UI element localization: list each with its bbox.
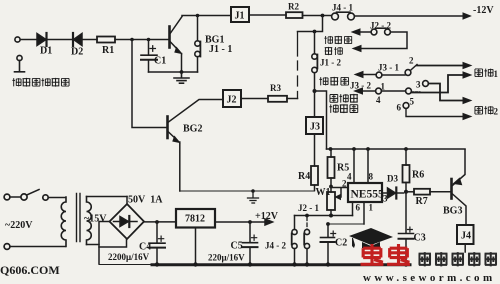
transistor BG3 bbox=[452, 150, 467, 226]
wire bbox=[82, 39, 97, 41]
svg-text:6: 6 bbox=[397, 103, 402, 113]
switch contact J3-2 bbox=[355, 72, 472, 94]
resistor R4 bbox=[311, 166, 318, 191]
svg-text:2: 2 bbox=[342, 179, 347, 189]
svg-text:J2 - 1: J2 - 1 bbox=[298, 203, 319, 213]
wire bbox=[241, 98, 268, 100]
control signal input terminal bbox=[15, 37, 20, 42]
svg-text:J1 - 1: J1 - 1 bbox=[209, 44, 232, 55]
pin 1 wire bbox=[363, 202, 365, 224]
svg-text:J2 - 2: J2 - 2 bbox=[370, 21, 391, 31]
NE555 supply rail bbox=[327, 147, 466, 151]
wire J1 to R2 bbox=[249, 14, 286, 16]
label 控制信号输入 (control signal input) bbox=[12, 78, 69, 87]
wire bbox=[287, 98, 298, 100]
svg-text:www.seworm.com: www.seworm.com bbox=[363, 272, 496, 284]
wire bbox=[20, 39, 37, 41]
pin 3 wire and diode D3 bbox=[382, 188, 404, 199]
svg-text:C4: C4 bbox=[139, 242, 151, 253]
svg-text:8: 8 bbox=[369, 172, 374, 182]
resistor R2 bbox=[286, 12, 303, 18]
svg-text:~15V: ~15V bbox=[84, 214, 107, 225]
relay contact J1-1 bbox=[195, 16, 201, 73]
wire to -12V arrow bbox=[355, 13, 471, 19]
earth symbol bbox=[248, 191, 259, 203]
diode D2 (reversed) bbox=[73, 33, 82, 46]
svg-text:J4 - 2: J4 - 2 bbox=[265, 241, 286, 251]
svg-text:J1 - 2: J1 - 2 bbox=[320, 58, 341, 68]
resistor R6 bbox=[403, 149, 410, 194]
branch to NE555 rail bbox=[315, 91, 327, 149]
svg-text:1: 1 bbox=[381, 82, 386, 92]
node branch to J1-2 column bbox=[298, 16, 323, 34]
capacitor C2 bbox=[321, 222, 336, 263]
svg-text:1: 1 bbox=[494, 69, 499, 79]
label 控制呼叫键 (control call key) bbox=[324, 36, 351, 55]
diode D1 bbox=[37, 33, 47, 46]
pin 8 wire bbox=[367, 149, 369, 183]
emitter ground line bbox=[180, 189, 315, 193]
relay contact J2-1 bbox=[304, 217, 309, 264]
mains terminals and switch bbox=[4, 190, 65, 250]
label 外线1 (outside line 1) bbox=[475, 69, 499, 79]
svg-text:C1: C1 bbox=[154, 56, 166, 67]
svg-text:R1: R1 bbox=[102, 45, 114, 56]
label 输入处 (input point) bbox=[329, 104, 357, 113]
relay contact J4-2 bbox=[292, 216, 297, 264]
capacitor C3 bbox=[399, 192, 414, 264]
contact 6 branch bbox=[403, 103, 471, 120]
svg-text:~220V: ~220V bbox=[5, 220, 33, 231]
svg-text:J3: J3 bbox=[310, 122, 320, 133]
svg-text:2: 2 bbox=[494, 107, 499, 117]
relay coil J2 bbox=[223, 90, 241, 107]
svg-text:R2: R2 bbox=[288, 2, 299, 12]
relay contact J2-2 with arrows bbox=[352, 28, 407, 51]
wire BG2 base branch bbox=[132, 40, 167, 128]
capacitor C5 bbox=[243, 220, 258, 263]
potentiometer W1 bbox=[327, 187, 341, 216]
label 外线2 (outside line 2) bbox=[475, 106, 499, 116]
svg-text:J2: J2 bbox=[227, 95, 237, 106]
relay coil J4 bbox=[457, 225, 474, 252]
svg-text:R6: R6 bbox=[412, 170, 424, 181]
label 按键机 (key phone) bbox=[319, 77, 348, 86]
svg-text:220μ/16V: 220μ/16V bbox=[208, 253, 245, 263]
phone line cut (dash) bbox=[297, 32, 299, 99]
watermark graduation cap bbox=[349, 228, 393, 248]
capacitor C1 bbox=[141, 40, 157, 73]
relay coil J3 bbox=[306, 91, 323, 166]
watermark 电子下载站 bbox=[419, 252, 497, 266]
svg-text:5: 5 bbox=[410, 97, 415, 107]
svg-text:Q606.COM: Q606.COM bbox=[0, 263, 60, 277]
transistor BG2 bbox=[168, 100, 224, 192]
timer NE555 bbox=[348, 183, 382, 202]
wire to BG1 base with junctions bbox=[115, 38, 169, 42]
capacitor C4 bbox=[149, 220, 165, 263]
resistor R1 bbox=[97, 37, 115, 43]
contacts top rail bbox=[295, 214, 353, 218]
svg-text:J3 - 2: J3 - 2 bbox=[350, 81, 371, 91]
input terminal 2 bbox=[15, 55, 25, 71]
ground bbox=[174, 72, 189, 83]
svg-text:6: 6 bbox=[356, 203, 361, 213]
+12V arrow bbox=[250, 219, 273, 225]
pin 6 wire bbox=[352, 202, 354, 216]
regulator 7812 bbox=[176, 209, 248, 264]
svg-text:R7: R7 bbox=[416, 196, 428, 207]
resistor R3 bbox=[268, 96, 287, 102]
svg-text:R4: R4 bbox=[298, 171, 310, 182]
ground rail bbox=[99, 262, 410, 266]
svg-text:R3: R3 bbox=[270, 83, 281, 93]
svg-text:BG2: BG2 bbox=[183, 124, 202, 135]
pin 4 wire bbox=[353, 149, 355, 183]
relay coil J1 bbox=[231, 7, 249, 22]
svg-text:J1: J1 bbox=[235, 11, 245, 22]
svg-text:7812: 7812 bbox=[185, 214, 205, 225]
svg-text:3: 3 bbox=[383, 194, 388, 204]
transistor BG1 bbox=[170, 17, 183, 73]
svg-text:+12V: +12V bbox=[255, 211, 279, 222]
svg-text:D2: D2 bbox=[71, 47, 83, 58]
label 电话线 (phone line) bbox=[330, 94, 358, 103]
svg-text:4: 4 bbox=[347, 172, 352, 182]
svg-text:2200μ/16V: 2200μ/16V bbox=[108, 252, 150, 262]
svg-text:1: 1 bbox=[369, 203, 374, 213]
svg-text:W1: W1 bbox=[316, 187, 331, 198]
wire pin1 to C2 node bbox=[328, 223, 364, 225]
relay contact J1-2 bbox=[312, 32, 318, 94]
svg-text:J4: J4 bbox=[461, 231, 471, 242]
contact 3 branch bbox=[423, 81, 471, 104]
wire emitter rail bbox=[149, 70, 198, 74]
resistor R5 bbox=[328, 149, 335, 188]
svg-text:NE555: NE555 bbox=[351, 189, 384, 201]
svg-text:D1: D1 bbox=[40, 46, 52, 57]
watermark 虫虫 red bbox=[361, 244, 410, 264]
svg-text:J4 - 1: J4 - 1 bbox=[332, 3, 353, 13]
wire to J4-1 bbox=[303, 14, 332, 18]
resistor R7 bbox=[406, 189, 451, 195]
relay contact J4-1 bbox=[332, 12, 355, 20]
svg-text:C3: C3 bbox=[414, 233, 426, 244]
svg-text:C5: C5 bbox=[231, 241, 243, 252]
svg-text:-12V: -12V bbox=[473, 5, 494, 16]
wire bbox=[48, 39, 72, 41]
svg-text:4: 4 bbox=[376, 95, 381, 105]
svg-text:BG3: BG3 bbox=[443, 206, 462, 217]
svg-text:D3: D3 bbox=[387, 174, 398, 184]
svg-text:2: 2 bbox=[409, 56, 414, 66]
bridge rectifier bbox=[99, 197, 176, 264]
svg-text:50V 1A: 50V 1A bbox=[128, 195, 163, 206]
transformer T bbox=[61, 194, 127, 247]
pin 2 wire bbox=[331, 187, 348, 189]
svg-text:J3 - 1: J3 - 1 bbox=[378, 63, 399, 73]
svg-text:3: 3 bbox=[416, 80, 421, 90]
switch contact J3-1 bbox=[355, 63, 471, 78]
wire collector to J1 bbox=[182, 14, 231, 18]
svg-text:C2: C2 bbox=[335, 238, 347, 249]
